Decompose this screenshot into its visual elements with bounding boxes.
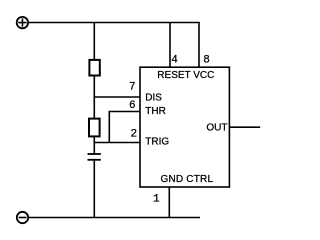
svg-text:4: 4: [171, 55, 178, 67]
svg-text:1: 1: [153, 194, 160, 206]
svg-text:OUT: OUT: [206, 122, 227, 133]
svg-text:GND CTRL: GND CTRL: [161, 174, 214, 185]
svg-text:THR: THR: [145, 106, 166, 117]
svg-text:2: 2: [131, 129, 138, 141]
svg-text:TRIG: TRIG: [145, 136, 169, 147]
svg-text:DIS: DIS: [145, 93, 162, 104]
svg-text:6: 6: [129, 100, 136, 112]
svg-text:7: 7: [129, 82, 136, 94]
svg-text:RESET VCC: RESET VCC: [157, 70, 214, 81]
svg-text:8: 8: [203, 55, 210, 67]
